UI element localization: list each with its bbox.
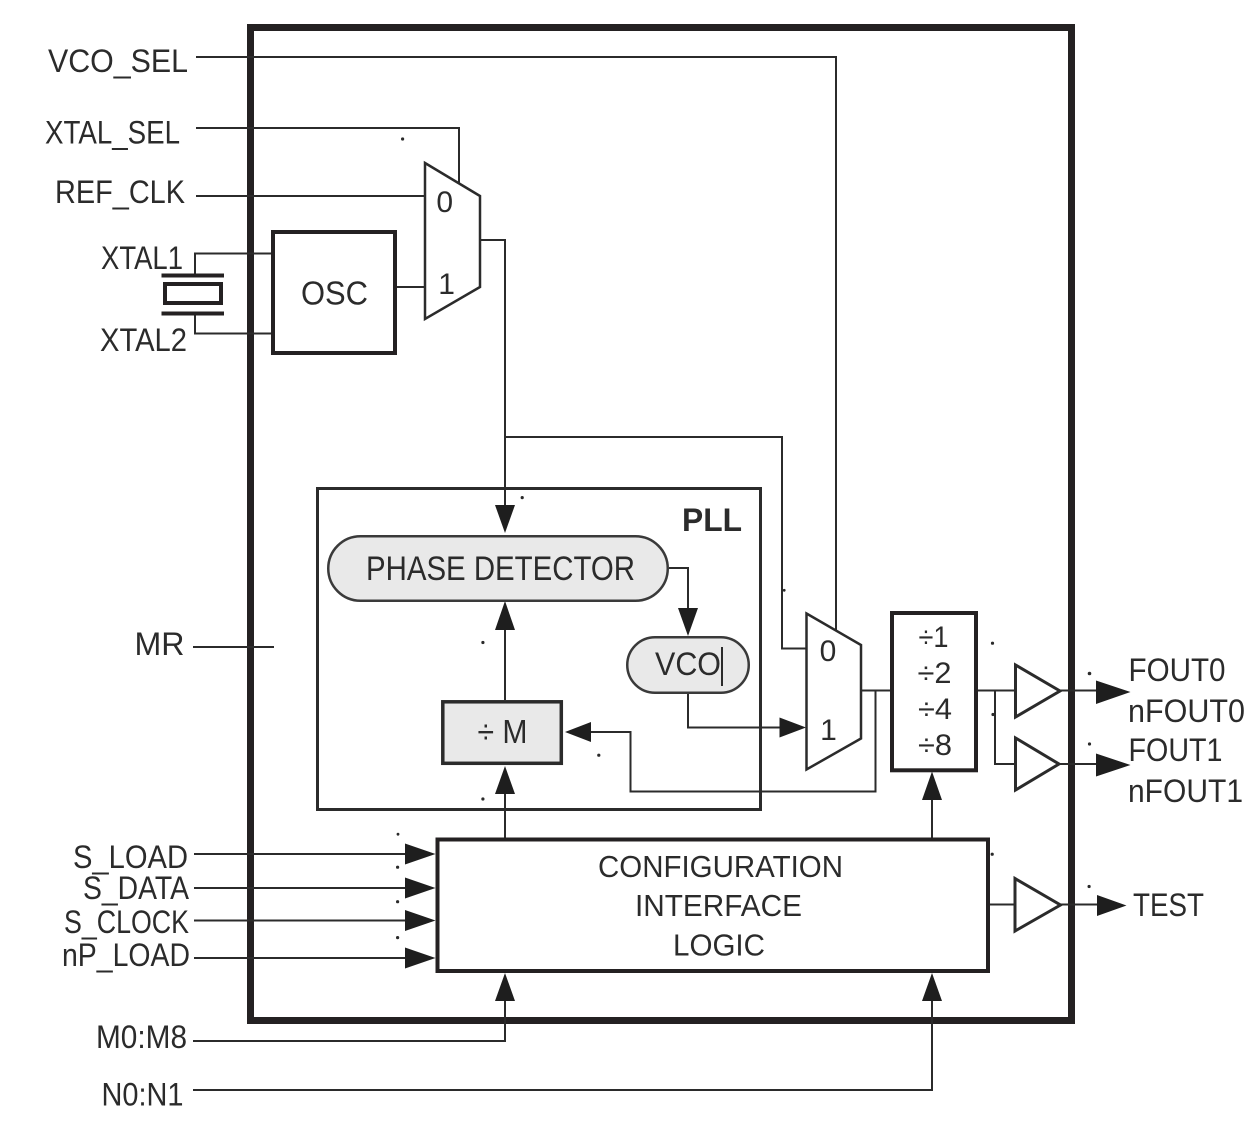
svg-text:÷4: ÷4 (918, 693, 952, 726)
VCO stadium (627, 637, 749, 693)
wire XTAL1 stub to crystal Y1 (194, 254, 196, 276)
arrowhead into phase detector bottom (495, 601, 515, 630)
buffer B3 TEST (1015, 879, 1061, 932)
wire divider M to phase detector (504, 608, 506, 700)
wire S_LOAD input (194, 853, 413, 855)
wire mux U1 output to phase detector (480, 240, 505, 526)
svg-text:MR: MR (135, 626, 185, 662)
wire buffer B2 output FOUT1 (1059, 763, 1100, 765)
svg-text:TEST: TEST (1133, 887, 1204, 923)
wire config logic to divider M control (504, 772, 506, 838)
wire VCO_SEL to mux U2 select (196, 57, 836, 631)
wire OSC output to mux U1 input 1 (397, 286, 424, 288)
wire divider N output to buffer B1 (977, 690, 1015, 692)
svg-text:REF_CLK: REF_CLK (55, 174, 185, 210)
wire MR input stub (193, 646, 274, 648)
wire S_DATA input (194, 887, 413, 889)
scan speck dots (396, 137, 1091, 939)
phase detector stadium (328, 536, 668, 601)
wire phase detector to VCO (669, 568, 688, 629)
arrowhead output FOUT0 (1096, 681, 1131, 705)
crystal Y1 top plate (162, 274, 225, 278)
wire config logic to buffer B3 (989, 904, 1016, 906)
arrowhead into divider M bottom (495, 766, 515, 794)
wire branch to buffer B2 (995, 691, 1015, 765)
arrowhead S_CLOCK into config logic (405, 910, 436, 931)
svg-text:M0:M8: M0:M8 (96, 1019, 187, 1055)
arrowhead N0:N1 into config logic (922, 973, 942, 1001)
arrowhead S_LOAD into config logic (405, 844, 436, 865)
svg-text:S_CLOCK: S_CLOCK (64, 904, 189, 940)
svg-text:÷ M: ÷ M (478, 713, 528, 750)
svg-text:CONFIGURATION: CONFIGURATION (598, 849, 843, 884)
wire nP_LOAD input (194, 957, 413, 959)
svg-text:1: 1 (820, 714, 837, 747)
wire N0:N1 bus to config logic (193, 978, 932, 1090)
arrowhead output TEST (1097, 895, 1127, 916)
wire mux U1 output branch to mux U2 input 0 (505, 437, 806, 649)
svg-text:0: 0 (820, 635, 837, 668)
wire REF_CLK to mux U1 input 0 (196, 195, 424, 197)
wire config logic to divider N control (931, 778, 933, 838)
svg-text:XTAL1: XTAL1 (101, 240, 183, 276)
svg-text:nP_LOAD: nP_LOAD (62, 937, 190, 973)
wire XTAL2 stub to crystal Y1 (194, 313, 196, 334)
arrowhead into VCO top (678, 608, 698, 636)
svg-text:FOUT1: FOUT1 (1129, 732, 1223, 768)
OSC block (273, 232, 395, 353)
svg-text:÷1: ÷1 (919, 621, 949, 654)
svg-text:÷2: ÷2 (918, 657, 952, 690)
wire buffer B1 output FOUT0 (1060, 690, 1100, 692)
arrowhead S_DATA into config logic (405, 878, 436, 899)
wire feedback tap to divider M (572, 690, 876, 792)
wire S_CLOCK input (194, 920, 413, 922)
svg-text:PLL: PLL (682, 502, 742, 538)
mux U1 trapezoid (425, 163, 480, 319)
svg-text:XTAL2: XTAL2 (100, 322, 187, 358)
svg-text:OSC: OSC (301, 275, 368, 312)
arrowhead into divider N bottom (922, 772, 942, 801)
wire XTAL2 to OSC (194, 333, 271, 335)
wire M0:M8 bus to config logic (193, 978, 505, 1041)
wire VCO output to mux U2 input 1 (688, 694, 799, 728)
svg-text:nFOUT0: nFOUT0 (1128, 693, 1245, 729)
svg-text:÷8: ÷8 (918, 729, 952, 762)
arrowhead output FOUT1 (1096, 754, 1131, 777)
arrowhead into mux U2 input 1 (780, 718, 807, 738)
buffer B1 FOUT0 (1016, 665, 1061, 717)
svg-text:N0:N1: N0:N1 (102, 1077, 184, 1113)
buffer B2 FOUT1 (1016, 738, 1060, 790)
crystal Y1 body (165, 284, 221, 303)
svg-text:VCO_SEL: VCO_SEL (48, 43, 188, 79)
svg-text:nFOUT1: nFOUT1 (1128, 773, 1243, 809)
wire buffer B3 output TEST (1060, 904, 1100, 906)
svg-text:0: 0 (436, 186, 453, 219)
divider N block (892, 613, 976, 770)
divider M block (443, 702, 562, 764)
wire XTAL1 to OSC (194, 253, 271, 255)
arrowhead M0:M8 into config logic (495, 973, 515, 1001)
arrowhead nP_LOAD into config logic (405, 948, 436, 969)
svg-text:FOUT0: FOUT0 (1129, 652, 1226, 688)
svg-text:1: 1 (438, 268, 455, 301)
mux U2 trapezoid (807, 614, 862, 770)
chip outer boundary box (251, 28, 1072, 1021)
wire XTAL_SEL to mux U1 select (196, 128, 459, 185)
svg-text:S_DATA: S_DATA (83, 870, 190, 906)
configuration interface logic block (438, 840, 989, 972)
svg-text:LOGIC: LOGIC (673, 928, 765, 963)
wire mux U2 output to divider N (861, 690, 892, 692)
arrowhead into phase detector top (495, 505, 515, 533)
svg-text:INTERFACE: INTERFACE (635, 888, 802, 923)
svg-text:PHASE DETECTOR: PHASE DETECTOR (366, 550, 635, 588)
PLL block box (318, 489, 761, 810)
crystal Y1 bottom plate (162, 312, 225, 316)
cursor artifact line after VCO (721, 647, 723, 686)
svg-text:XTAL_SEL: XTAL_SEL (45, 115, 180, 151)
arrowhead into divider M right (565, 722, 591, 742)
svg-text:VCO: VCO (655, 646, 721, 682)
